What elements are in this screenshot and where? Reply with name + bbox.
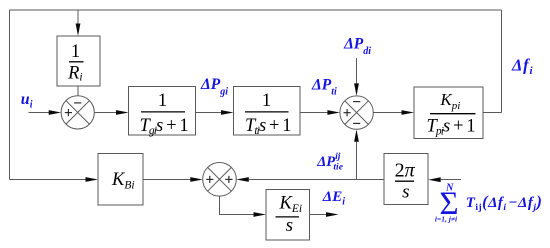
svg-text:ΔPijtie: ΔPijtie — [316, 152, 344, 173]
block power system K_pi/(T_pi s+1) — [414, 87, 483, 139]
wire: S1 to governor block with arrowhead — [94, 110, 128, 115]
svg-text:1: 1 — [158, 91, 167, 111]
svg-text:Ttis + 1: Ttis + 1 — [245, 116, 291, 137]
svg-text:1: 1 — [262, 91, 271, 111]
arrowhead into K_Bi — [86, 177, 99, 182]
wire: branch up from tie line into S2 bottom with arrowhead — [354, 130, 359, 180]
wire: ΔE_i output arrow — [310, 212, 339, 217]
wire: u_i input with arrowhead — [29, 110, 62, 115]
wire: ΔP_di down into S2 with arrowhead — [354, 58, 359, 96]
svg-text:s: s — [402, 181, 409, 202]
wire: S2 to power system block with arrowhead — [373, 110, 414, 115]
wire: K_Bi to summing junction S3 with arrowhead — [143, 177, 203, 182]
svg-text:ΔEi: ΔEi — [322, 189, 345, 207]
wire: S3 output down and into K_Ei/s with arrowhead — [220, 196, 267, 217]
svg-text:2π: 2π — [395, 160, 416, 182]
svg-text:Tij(Δfi−Δfj): Tij(Δfi−Δfj) — [466, 192, 543, 213]
summing junction S3 (plus left, plus right) — [203, 163, 237, 197]
block turbine 1/(T_ti s+1) — [234, 87, 301, 138]
wire: top feedback line carrying Δf_i back to 1/Ri branch and K_Bi — [10, 10, 502, 180]
wire: branch down into 1/Ri with arrowhead — [76, 10, 81, 36]
block integral controller K_Ei/s — [266, 190, 310, 241]
block tie line 2π/s — [384, 154, 428, 205]
wire: tie-line power into S3 (arrow pointing left into right side of S3) — [236, 177, 384, 182]
label Σ T_ij(Δf_i − Δf_j) tie-line sum expression — [435, 182, 542, 223]
summing junction S1 (minus top, plus left) — [61, 96, 94, 129]
svg-text:ΔPti: ΔPti — [311, 76, 337, 97]
wire: turbine to summing junction S2 with arrowhead — [300, 110, 340, 115]
wire: governor to turbine with arrowhead — [196, 110, 234, 115]
summing junction S2 (minus top, plus left, minus bottom) — [340, 96, 373, 129]
svg-text:Tpis + 1: Tpis + 1 — [427, 117, 476, 138]
svg-text:1: 1 — [71, 42, 80, 62]
block governor 1/(T_gi s+1) — [129, 87, 196, 138]
block frequency bias K_Bi — [98, 154, 143, 206]
svg-text:ΔPgi: ΔPgi — [200, 76, 228, 97]
svg-text:s: s — [286, 215, 293, 236]
svg-text:Tgis + 1: Tgis + 1 — [140, 116, 189, 137]
wire: 1/Ri output into summing junction S1 — [77, 86, 79, 96]
svg-text:Δfi: Δfi — [511, 56, 533, 78]
block droop 1/Ri — [57, 36, 100, 86]
svg-text:ui: ui — [21, 91, 33, 110]
svg-text:ΔPdi: ΔPdi — [343, 36, 371, 57]
wire: tie-line sum input into 2π/s (arrow pointing left) — [428, 177, 461, 182]
svg-text:i=1, j≠i: i=1, j≠i — [435, 214, 458, 223]
